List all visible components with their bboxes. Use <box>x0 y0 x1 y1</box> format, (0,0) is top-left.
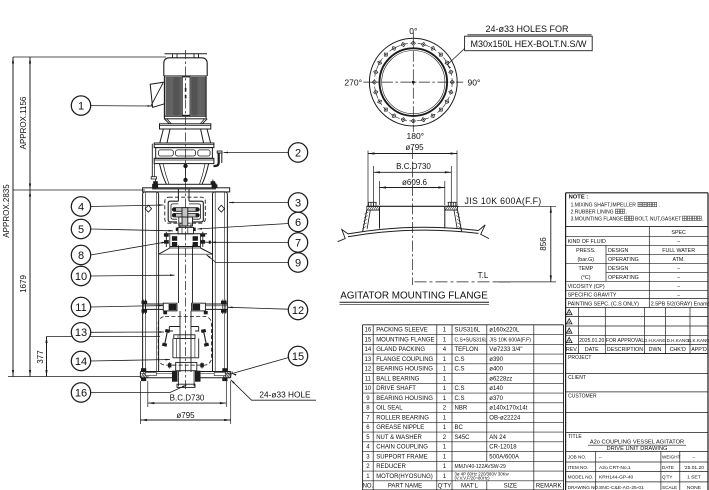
svg-text:REMARK: REMARK <box>536 484 562 490</box>
packing sleeve tube <box>177 371 179 387</box>
svg-text:DESIGN: DESIGN <box>608 266 628 272</box>
svg-text:.: . <box>659 203 660 209</box>
stuffing box dashed box <box>158 316 211 365</box>
reducer top flange <box>154 143 214 148</box>
balloon 13 <box>71 323 164 342</box>
svg-text:14: 14 <box>75 356 87 368</box>
gland stud right <box>201 329 209 347</box>
svg-text:JIS 10K 600A(F.F): JIS 10K 600A(F.F) <box>489 337 531 343</box>
svg-text:ø140x170x14t: ø140x170x14t <box>489 406 527 412</box>
title box <box>568 434 686 452</box>
svg-text:B.K.KANG: B.K.KANG <box>688 338 709 343</box>
coupling upper shaft <box>177 189 179 201</box>
svg-text:MAT’L: MAT’L <box>461 484 479 490</box>
svg-text:MOUNTING FLANGE: MOUNTING FLANGE <box>376 337 434 343</box>
svg-text:CR-12018: CR-12018 <box>489 445 517 451</box>
svg-text:MMJV40-122AVSW-29: MMJV40-122AVSW-29 <box>455 464 506 470</box>
svg-text:PAINTING SEPC. (C.S ONLY): PAINTING SEPC. (C.S ONLY) <box>568 301 640 307</box>
bolt circle dashed <box>374 43 452 121</box>
vessel shell arc <box>348 227 479 234</box>
svg-text:(V.V.V.F/20~80Hz): (V.V.V.F/20~80Hz) <box>455 476 491 481</box>
svg-text:4: 4 <box>78 201 84 213</box>
flange section face <box>367 205 458 207</box>
svg-text:GLAND PACKING: GLAND PACKING <box>376 347 425 353</box>
svg-text:C.S: C.S <box>455 396 465 402</box>
svg-text:C.S+SUS316L: C.S+SUS316L <box>455 337 488 343</box>
svg-text:DATE: DATE <box>662 465 674 470</box>
svg-text:2.RUBBER LINING: 2.RUBBER LINING <box>571 209 614 215</box>
support frame top plate <box>143 188 230 192</box>
svg-text:–: – <box>677 239 680 245</box>
chain coupling dashed box <box>165 197 206 223</box>
svg-text:B.C.D730: B.C.D730 <box>170 394 205 403</box>
extension line top <box>13 56 166 58</box>
svg-text:OPERATING: OPERATING <box>608 275 639 281</box>
svg-text:ø795: ø795 <box>405 143 424 152</box>
svg-text:14: 14 <box>365 347 372 353</box>
flange neck left <box>363 210 367 231</box>
svg-text:–: – <box>677 284 680 290</box>
grease pipe elbow right <box>214 153 219 166</box>
svg-text:’25.01.20: ’25.01.20 <box>684 465 704 471</box>
svg-text:D.H.KANG: D.H.KANG <box>644 338 667 343</box>
dim B.C.D730 (section) <box>374 162 452 206</box>
reducer windows <box>159 150 174 156</box>
svg-text:9: 9 <box>295 257 301 269</box>
svg-text:10: 10 <box>75 271 87 283</box>
svg-text:A2o COUPLING VESSEL AGITATOR: A2o COUPLING VESSEL AGITATOR <box>590 439 684 445</box>
leader to bolt circle <box>447 49 465 66</box>
svg-text:PROJECT: PROJECT <box>568 355 591 361</box>
svg-text:NO.: NO. <box>363 484 374 490</box>
svg-text:.: . <box>702 216 703 222</box>
svg-text:OPERATING: OPERATING <box>608 257 639 263</box>
spec table <box>566 227 709 308</box>
motor fins <box>166 77 205 115</box>
dim 1679 <box>19 190 31 377</box>
title block outer border <box>565 193 567 490</box>
svg-text:6: 6 <box>295 217 301 229</box>
svg-text:ø6228zz: ø6228zz <box>489 376 512 382</box>
shell break right <box>479 225 490 239</box>
svg-text:1: 1 <box>78 101 84 113</box>
svg-text:APPROX.1156: APPROX.1156 <box>19 96 28 149</box>
svg-text:DESCRIPTION: DESCRIPTION <box>607 347 643 353</box>
svg-text:16: 16 <box>75 387 87 399</box>
balloon 2 <box>224 143 308 162</box>
svg-text:DESIGN: DESIGN <box>608 248 628 254</box>
svg-text:FULL WATER: FULL WATER <box>662 248 695 254</box>
neck hatch <box>362 212 462 229</box>
svg-text:270°: 270° <box>344 78 362 88</box>
24 bolt holes <box>372 41 454 123</box>
frame top plate bolts <box>152 184 158 187</box>
svg-text:CLIENT: CLIENT <box>568 375 586 381</box>
balloon 5 <box>71 219 173 238</box>
leader for 24-dia33 HOLE <box>231 380 316 400</box>
svg-text:13: 13 <box>75 327 87 339</box>
balloon 14 <box>71 351 170 370</box>
flange studs right <box>447 202 449 206</box>
svg-text:NOTE :: NOTE : <box>569 195 589 201</box>
svg-text:DRAWING NO.: DRAWING NO. <box>568 485 599 490</box>
svg-text:13: 13 <box>365 357 372 363</box>
flange column bolts <box>141 368 146 371</box>
parts list table <box>363 325 564 490</box>
NOTE box <box>566 195 708 227</box>
grease nipple right <box>205 241 211 243</box>
svg-text:2025.01.20: 2025.01.20 <box>579 338 604 344</box>
svg-text:BC: BC <box>455 425 464 431</box>
svg-text:SCALE: SCALE <box>662 485 677 490</box>
extension line mid (frame top) <box>13 189 145 191</box>
svg-text:D.H.KANG: D.H.KANG <box>667 338 690 343</box>
svg-text:2: 2 <box>295 147 301 159</box>
flange neck right <box>458 210 462 231</box>
svg-text:Q’TY: Q’TY <box>662 474 672 479</box>
flange top view outer circle <box>369 38 457 126</box>
drive shaft <box>179 223 181 228</box>
svg-text:OIL SEAL: OIL SEAL <box>376 406 403 412</box>
lower bearing small bolts <box>163 311 167 314</box>
flange top view inner circle (dia609.6 bore) <box>380 48 448 116</box>
svg-text:SNC-C&E-AG-25-01: SNC-C&E-AG-25-01 <box>599 485 644 490</box>
svg-text:REV.: REV. <box>566 347 578 353</box>
svg-text:1 SET: 1 SET <box>687 474 701 480</box>
svg-text:15: 15 <box>292 351 304 363</box>
lower bearing housing blocks <box>163 303 177 311</box>
svg-text:JIS 10K 600A(F.F): JIS 10K 600A(F.F) <box>465 196 542 206</box>
svg-text:8: 8 <box>78 250 84 262</box>
gland stud left <box>162 329 170 347</box>
svg-text:856: 856 <box>539 237 548 251</box>
adapter housing legs <box>160 129 211 143</box>
svg-text:ø370: ø370 <box>489 396 503 402</box>
svg-text:KRH144-GP-40: KRH144-GP-40 <box>599 474 634 480</box>
svg-text:A2o CRT-No.1: A2o CRT-No.1 <box>599 465 631 471</box>
svg-text:2.5PB 5/2(GRAY) Ename: 2.5PB 5/2(GRAY) Ename <box>651 301 709 307</box>
flange ring left hatched <box>367 206 380 210</box>
reducer gear band <box>156 148 213 159</box>
svg-text:0°: 0° <box>409 26 417 36</box>
svg-text:VICOSITY (CP): VICOSITY (CP) <box>568 284 605 290</box>
svg-text:TITLE: TITLE <box>568 434 582 440</box>
svg-text:ø140: ø140 <box>489 386 503 392</box>
svg-text:NBR: NBR <box>455 406 468 412</box>
motor junction box <box>150 82 164 107</box>
svg-text:Vø7233 3/4": Vø7233 3/4" <box>489 347 522 353</box>
svg-text:377: 377 <box>36 350 45 364</box>
svg-text:7: 7 <box>295 237 301 249</box>
svg-text:16: 16 <box>365 328 372 334</box>
frame left column <box>143 192 159 372</box>
extension line bottom (flange base) <box>8 376 141 378</box>
svg-text:10: 10 <box>365 386 372 392</box>
svg-text:12: 12 <box>292 305 304 317</box>
dim APPROX.2835 (left overall height) <box>2 57 14 377</box>
nut and washer <box>179 226 181 227</box>
dim 856 <box>458 206 557 282</box>
bearing skirt <box>159 248 213 254</box>
reducer bell mouth <box>160 164 209 185</box>
motor fin bottom ring <box>164 116 206 119</box>
balloon 4 <box>71 197 163 216</box>
svg-text:180°: 180° <box>407 131 425 141</box>
svg-text:MOTOR(HYOSUNG): MOTOR(HYOSUNG) <box>376 474 433 480</box>
svg-text:TEFLON: TEFLON <box>455 347 479 353</box>
svg-text:–: – <box>677 292 680 298</box>
diamond mark right column <box>218 205 224 212</box>
svg-text:REDUCER: REDUCER <box>376 464 406 470</box>
svg-text:5: 5 <box>78 224 84 236</box>
svg-text:(°C): (°C) <box>581 275 591 281</box>
svg-text:TEMP: TEMP <box>578 266 593 272</box>
project client customer rows <box>566 354 708 433</box>
motor bell <box>164 119 207 124</box>
svg-text:3: 3 <box>295 197 301 209</box>
reducer left tie rod <box>151 144 153 177</box>
dim dia609.6 (section) <box>380 178 445 205</box>
svg-text:BEARING HOUSING: BEARING HOUSING <box>376 396 433 402</box>
svg-text:GREASE NIPPLE: GREASE NIPPLE <box>376 425 424 431</box>
svg-text:DRIVE SHAFT: DRIVE SHAFT <box>376 386 416 392</box>
svg-text:CUSTOMER: CUSTOMER <box>568 393 597 399</box>
svg-text:WEIGHT: WEIGHT <box>662 455 681 460</box>
flange hatch ends <box>141 372 233 378</box>
svg-text:C.S: C.S <box>455 386 465 392</box>
dim dia795 bottom <box>140 381 230 424</box>
motor fin body <box>164 76 206 116</box>
svg-text:APP’D: APP’D <box>691 347 707 353</box>
svg-text:SUPPORT FRAME: SUPPORT FRAME <box>376 454 427 460</box>
svg-text:1.MIXING SHAFT,IMPELLER: 1.MIXING SHAFT,IMPELLER <box>571 203 637 209</box>
stuffing box body <box>169 326 198 328</box>
svg-text:CHK’D: CHK’D <box>670 347 686 353</box>
shell break left <box>338 230 348 242</box>
balloon 6 <box>198 212 308 231</box>
svg-text:–: – <box>693 456 696 461</box>
svg-text:3.MOUNTING FLANGE: 3.MOUNTING FLANGE <box>571 216 624 222</box>
lower bearing outer bolts <box>142 301 148 304</box>
reducer output flange <box>153 184 216 189</box>
svg-text:CHAIN COUPLING: CHAIN COUPLING <box>376 445 428 451</box>
stuffing body walls <box>172 339 174 358</box>
svg-text:M30x150L HEX-BOLT.N.S/W: M30x150L HEX-BOLT.N.S/W <box>470 39 587 49</box>
svg-text:OB-ø22224: OB-ø22224 <box>489 415 521 421</box>
svg-text:T.L: T.L <box>478 271 489 280</box>
balloon 9 <box>207 253 308 272</box>
svg-text:NUT & WASHER: NUT & WASHER <box>376 435 422 441</box>
diamond mark left column <box>145 205 151 212</box>
svg-text:24-ø33 HOLES FOR: 24-ø33 HOLES FOR <box>485 24 569 34</box>
motor base flange <box>160 124 211 129</box>
drawing info grid <box>566 452 708 490</box>
leader balloon 15 <box>232 358 289 374</box>
svg-text:S45C: S45C <box>455 435 471 441</box>
svg-text:MODEL NO.: MODEL NO. <box>568 474 594 479</box>
shaft mid section <box>178 245 180 303</box>
dim 377 <box>36 337 160 377</box>
svg-text:BOLT, NUT,GASKET: BOLT, NUT,GASKET <box>635 216 681 222</box>
svg-text:ø795: ø795 <box>176 411 195 420</box>
svg-text:BALL BEARING: BALL BEARING <box>376 376 419 382</box>
svg-text:SUS316L: SUS316L <box>455 328 481 334</box>
svg-text:PART NAME: PART NAME <box>388 484 422 490</box>
output flange bolts <box>153 181 158 184</box>
frame right column <box>213 192 228 372</box>
svg-text:–: – <box>677 275 680 281</box>
svg-text:11: 11 <box>365 376 372 382</box>
svg-text:C.S: C.S <box>455 367 465 373</box>
flange bore walls <box>379 206 381 228</box>
motor canopy top bar <box>165 53 208 55</box>
coupling cover <box>168 201 178 222</box>
svg-text:JOB NO.: JOB NO. <box>568 455 586 460</box>
svg-text:ø609.6: ø609.6 <box>402 178 427 187</box>
svg-text:SIZE: SIZE <box>504 484 517 490</box>
svg-text:–: – <box>677 266 680 272</box>
balloon 11 <box>71 297 163 316</box>
svg-text:–: – <box>599 456 602 461</box>
gland packing dark blocks <box>172 371 178 382</box>
reducer bottom flange <box>154 158 214 163</box>
flange section centerline <box>412 148 414 285</box>
svg-text:.: . <box>626 209 627 215</box>
flange studs left <box>368 202 370 206</box>
upper bearing housing item 9 <box>164 233 207 235</box>
svg-text:ITEM NO.: ITEM NO. <box>568 465 588 470</box>
svg-text:B.C.D730: B.C.D730 <box>396 162 431 171</box>
shaft dots on centerline <box>184 164 187 167</box>
svg-text:Q’TY: Q’TY <box>438 484 452 490</box>
svg-text:FLANGE COUPLING: FLANGE COUPLING <box>376 357 433 363</box>
svg-text:NONE: NONE <box>687 485 702 490</box>
svg-text:11: 11 <box>75 302 86 314</box>
coupling chain rows <box>172 208 199 212</box>
svg-text:C.S: C.S <box>455 357 465 363</box>
svg-text:KIND OF FLUID: KIND OF FLUID <box>568 239 606 245</box>
lower bearing frame ring <box>143 303 228 305</box>
dim dia795 (section) <box>368 143 457 206</box>
svg-text:FOR APPROVAL: FOR APPROVAL <box>606 338 644 344</box>
sleeve gland bolts <box>168 363 172 367</box>
balloon 15 <box>288 346 307 365</box>
canopy studs <box>172 54 174 58</box>
motor fan cover <box>164 58 207 76</box>
upper bearing side bolts <box>164 234 169 237</box>
balloon 12 <box>228 300 308 319</box>
svg-text:AN 24: AN 24 <box>489 435 506 441</box>
svg-text:DATE: DATE <box>585 347 599 353</box>
motor nameplate band <box>182 77 190 115</box>
svg-text:ø160x220L: ø160x220L <box>489 328 520 334</box>
column foot pads on flange <box>145 372 156 375</box>
balloon 7 <box>212 233 308 252</box>
note box M30x150L <box>465 36 593 51</box>
svg-text:ATM.: ATM. <box>673 257 685 263</box>
balloon 1 <box>71 96 152 115</box>
svg-text:(bar.G): (bar.G) <box>578 257 595 263</box>
top view crosshair centerlines <box>363 81 463 83</box>
centerline of assembly <box>185 50 187 390</box>
T.L line <box>415 281 511 283</box>
svg-text:PACKING SLEEVE: PACKING SLEEVE <box>376 328 428 334</box>
svg-text:APPROX.2835: APPROX.2835 <box>2 184 11 238</box>
shaft through stuffing <box>179 311 181 372</box>
dim APPROX.1156 <box>19 57 31 190</box>
svg-text:ø390: ø390 <box>489 357 503 363</box>
coupling lower hub <box>182 208 188 226</box>
balloon 3 <box>229 193 308 212</box>
svg-text:ø400: ø400 <box>489 367 503 373</box>
svg-text:SPECIFIC GRAVITY: SPECIFIC GRAVITY <box>568 292 617 298</box>
svg-text:SPEC: SPEC <box>671 230 686 236</box>
svg-text:15: 15 <box>365 337 372 343</box>
svg-text:DWN: DWN <box>649 347 662 353</box>
balloon 8 <box>71 242 166 265</box>
svg-text:AGITATOR MOUNTING FLANGE: AGITATOR MOUNTING FLANGE <box>340 291 488 302</box>
roller bearing blocks dark <box>172 236 177 241</box>
svg-text:24-ø33 HOLE: 24-ø33 HOLE <box>259 390 311 400</box>
balloon 10 <box>71 266 174 285</box>
svg-text:PRESS.: PRESS. <box>576 248 595 254</box>
svg-text:500A/600A: 500A/600A <box>489 454 519 460</box>
packing sleeve assembly <box>176 362 197 370</box>
svg-text:ROLLER BEARING: ROLLER BEARING <box>376 415 429 421</box>
balloon 16 <box>71 383 186 402</box>
svg-text:90°: 90° <box>468 78 481 88</box>
center mark <box>412 81 414 83</box>
gland plate <box>174 335 195 339</box>
mounting flange plate <box>140 371 230 373</box>
dim B.C.D730 <box>148 381 227 407</box>
svg-text:12: 12 <box>365 367 372 373</box>
flange ring right hatched <box>445 206 458 210</box>
svg-text:1679: 1679 <box>19 275 28 293</box>
revision table <box>566 308 709 354</box>
svg-text:BEARING HOUSING: BEARING HOUSING <box>376 367 433 373</box>
